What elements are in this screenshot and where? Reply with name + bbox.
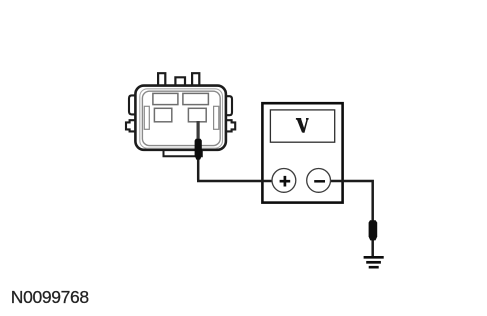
connector inner mating face bbox=[142, 91, 220, 145]
svg-text:N0099768: N0099768 bbox=[11, 287, 89, 307]
wire: probe to voltmeter positive bbox=[197, 121, 278, 181]
test probe P1 in connector bbox=[195, 139, 202, 160]
connector right slot bbox=[214, 106, 219, 129]
connector cavity top-right bbox=[183, 93, 209, 104]
connector right upper tab bbox=[224, 96, 232, 115]
voltmeter display window bbox=[270, 110, 334, 142]
ground symbol bbox=[364, 257, 384, 267]
voltmeter negative terminal bbox=[307, 169, 331, 193]
wire: voltmeter negative to ground drop bbox=[324, 180, 373, 256]
connector left lower tab bbox=[126, 120, 138, 131]
connector right lower tab bbox=[224, 120, 235, 131]
voltmeter V label bbox=[296, 118, 309, 133]
connector top tab 1 bbox=[158, 73, 165, 87]
test probe P2 at ground bbox=[369, 220, 378, 240]
connector cavity top-left bbox=[153, 93, 178, 104]
figure number label N0099768 bbox=[11, 287, 89, 307]
connector top tab 3 bbox=[192, 73, 199, 87]
connector cavity mid-left bbox=[154, 108, 171, 122]
connector bottom lock tab bbox=[164, 150, 202, 156]
connector inner wall line bbox=[140, 89, 223, 148]
voltmeter U1 body bbox=[262, 103, 342, 202]
connector left slot bbox=[144, 106, 149, 129]
connector left upper tab bbox=[129, 95, 138, 114]
connector top tab 2 bbox=[175, 77, 185, 87]
connector cavity mid-right (probed) bbox=[188, 108, 206, 122]
connector C1 body outline bbox=[135, 86, 226, 150]
voltmeter positive terminal bbox=[272, 169, 296, 193]
